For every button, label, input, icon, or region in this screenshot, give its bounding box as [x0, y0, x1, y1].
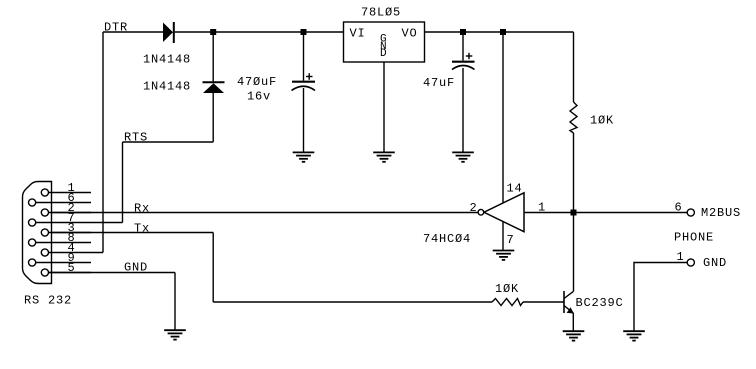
- svg-text:PHONE: PHONE: [674, 231, 714, 245]
- value label 1N4148 (D1): [143, 53, 191, 67]
- svg-text:GND: GND: [124, 261, 148, 275]
- pin M2BUS 6: [687, 209, 694, 216]
- pin label 3 (J1): [68, 221, 76, 235]
- node junction pin14/rail: [500, 29, 506, 35]
- wire pin 5 stub: [49, 272, 92, 274]
- wire Tx net horizontal: [49, 232, 214, 234]
- svg-text:1N4148: 1N4148: [143, 53, 191, 67]
- wire Tx to R2: [213, 301, 492, 303]
- wire RTS horizontal: [123, 141, 214, 143]
- diode D1 1N4148: [163, 22, 174, 43]
- wire Q1 collector: [573, 213, 575, 292]
- wire Rx net: [49, 212, 479, 214]
- svg-text:VI: VI: [350, 27, 366, 41]
- svg-text:1ØK: 1ØK: [590, 114, 614, 128]
- svg-text:1N4148: 1N4148: [143, 80, 191, 94]
- pin label 6: [675, 201, 683, 215]
- ground (U1): [373, 152, 395, 161]
- wire U1 GND pin to ground: [383, 62, 385, 152]
- pin 3 circle (J1): [41, 229, 48, 236]
- svg-text:VO: VO: [402, 27, 418, 41]
- svg-text:14: 14: [507, 182, 523, 196]
- svg-text:GND: GND: [703, 256, 727, 270]
- label Tx: [134, 222, 150, 236]
- pin 4 circle (J1): [41, 249, 48, 256]
- pin label 4 (J1): [68, 241, 76, 255]
- capacitor C1 470uF 16v: [292, 73, 316, 90]
- wire Tx vertical: [212, 233, 214, 303]
- pin label 8 (J1): [68, 231, 76, 245]
- wire pin 1 stub: [49, 192, 92, 194]
- label Rx: [134, 202, 150, 216]
- resistor R1 10K vertical: [570, 102, 577, 133]
- wire R1 to output node: [573, 133, 575, 213]
- ground (C2): [452, 152, 474, 161]
- pin 2 circle (J1): [41, 209, 48, 216]
- pin label 2 (J1): [68, 201, 76, 215]
- wire phone GND: [634, 263, 687, 332]
- pin label 5 (J1): [68, 261, 76, 275]
- label M2BUS: [701, 206, 741, 220]
- wire U1 pin14 supply to inverter: [502, 32, 504, 203]
- pin 9 circle (J1): [28, 259, 35, 266]
- wire C2 to rail: [462, 32, 464, 61]
- part label 74HC04: [423, 232, 471, 246]
- node junction C2/rail: [460, 29, 466, 35]
- pin label 7: [507, 233, 515, 247]
- node junction D2/rail: [210, 29, 216, 35]
- ground (phone GND): [623, 331, 645, 340]
- svg-text:47uF: 47uF: [423, 76, 455, 90]
- pin label 14: [507, 182, 523, 196]
- svg-text:16v: 16v: [247, 90, 271, 104]
- wire pin 3 stub: [49, 232, 92, 234]
- wire C1 to ground: [303, 88, 305, 152]
- value label 16v: [247, 90, 271, 104]
- svg-text:BC239C: BC239C: [576, 296, 624, 310]
- label PHONE: [674, 231, 714, 245]
- svg-text:Tx: Tx: [134, 222, 150, 236]
- pin 1 circle (J1): [41, 189, 48, 196]
- ground (C1): [293, 152, 315, 161]
- pin label 7 (J1): [68, 211, 76, 225]
- value label 10K (R1): [590, 114, 614, 128]
- svg-text:6: 6: [675, 201, 683, 215]
- wire pin 2 stub: [49, 212, 92, 214]
- svg-text:74HCØ4: 74HCØ4: [423, 232, 471, 246]
- wire DTR vertical to pin 4: [102, 32, 104, 253]
- pin label 1: [538, 201, 546, 215]
- node junction C1/rail: [301, 29, 307, 35]
- wire D2 anode to RTS: [212, 93, 214, 142]
- wire VO output rail: [425, 31, 574, 33]
- svg-text:RS 232: RS 232: [24, 294, 72, 308]
- value label 47uF: [423, 76, 455, 90]
- pin label 6 (J1): [68, 191, 76, 205]
- ground (U2 pin7): [493, 251, 515, 260]
- wire DTR rail left segment: [103, 31, 163, 33]
- wire D2 cathode to rail: [212, 32, 214, 82]
- IC U1 78L05 regulator: [344, 22, 425, 62]
- wire DTR rail to regulator input: [175, 31, 344, 33]
- pin label 1 (GND): [677, 250, 685, 264]
- wire U2 pin7 to ground: [502, 222, 504, 250]
- wire Q1 emitter to ground: [572, 313, 574, 331]
- wire rail corner down to R1: [573, 32, 575, 102]
- wire C1 to rail: [303, 32, 305, 81]
- wire pin 8 stub: [36, 242, 91, 244]
- label GND (RS232): [124, 261, 148, 275]
- connector J1 RS232 shell: [23, 182, 52, 284]
- pin label 1 (J1): [68, 181, 76, 195]
- label RTS: [124, 131, 148, 145]
- pin 6 circle (J1): [28, 199, 35, 206]
- capacitor C2 47uF: [452, 53, 475, 70]
- pin label 2: [470, 201, 478, 215]
- svg-text:Rx: Rx: [134, 202, 150, 216]
- pin GND 1: [687, 259, 694, 266]
- wire pin 4 stub: [49, 252, 104, 254]
- ground (Q1 emitter): [563, 331, 585, 340]
- value label 1N4148 (D2): [143, 80, 191, 94]
- svg-text:D: D: [380, 48, 387, 60]
- pin 7 circle (J1): [28, 219, 35, 226]
- transistor Q1 BC239C: [564, 291, 574, 314]
- wire pin 6 stub: [36, 202, 91, 204]
- pin 5 circle (J1): [41, 269, 48, 276]
- inverter U2 74HC04: [478, 193, 524, 232]
- pin 8 circle (J1): [28, 239, 35, 246]
- wire pin 7 stub: [36, 222, 123, 224]
- wire RS232 GND net: [49, 273, 176, 331]
- diode D2 1N4148: [203, 82, 225, 93]
- value label 470uF: [237, 75, 277, 89]
- wire pin 9 stub: [36, 262, 91, 264]
- label RS 232: [24, 294, 72, 308]
- label GND (phone): [703, 256, 727, 270]
- part label 78L05: [361, 6, 401, 20]
- svg-text:47ØuF: 47ØuF: [237, 75, 277, 89]
- svg-text:RTS: RTS: [124, 131, 148, 145]
- svg-text:DTR: DTR: [104, 21, 128, 35]
- ground (RS232 GND): [164, 330, 186, 339]
- wire RTS vertical to pin 7: [122, 142, 124, 223]
- wire C2 to ground: [462, 68, 464, 152]
- pin label 9 (J1): [68, 251, 76, 265]
- value label 10K (R2): [495, 282, 519, 296]
- part label BC239C: [576, 296, 624, 310]
- svg-text:78LØ5: 78LØ5: [361, 6, 401, 20]
- wire R2 to Q1 base: [523, 301, 564, 303]
- label DTR: [104, 21, 128, 35]
- svg-text:1ØK: 1ØK: [495, 282, 519, 296]
- wire U2 output to M2BUS: [524, 212, 687, 214]
- resistor R2 10K horizontal: [492, 299, 523, 306]
- node junction output/Q1 collector: [571, 210, 577, 216]
- svg-text:M2BUS: M2BUS: [701, 206, 741, 220]
- svg-text:7: 7: [507, 233, 515, 247]
